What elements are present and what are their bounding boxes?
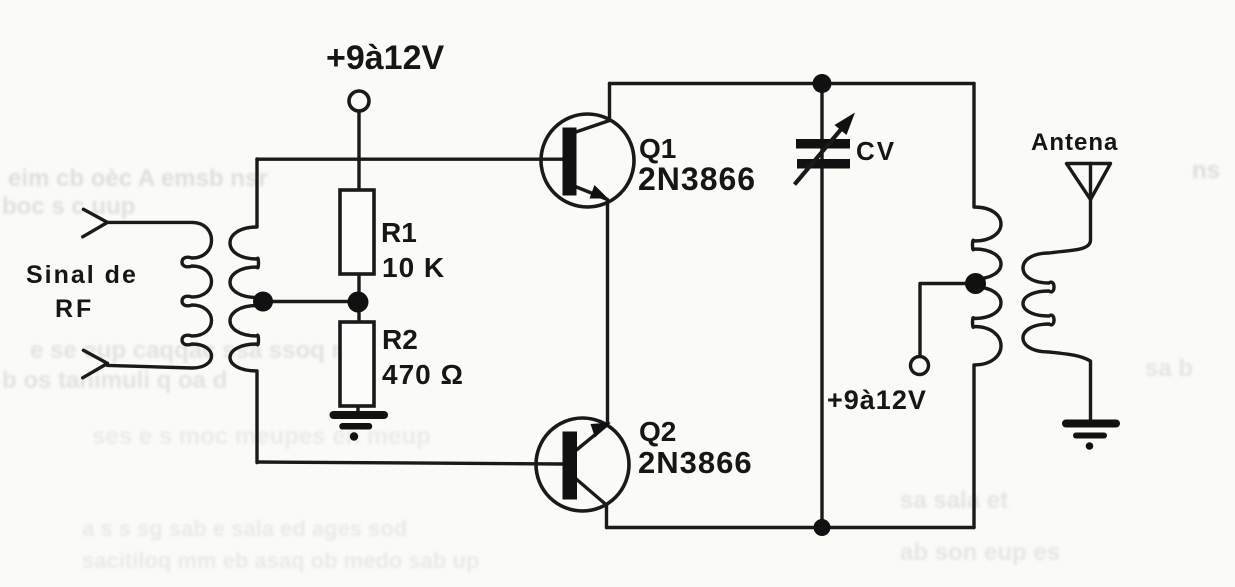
svg-text:Q1: Q1 <box>639 133 676 164</box>
svg-text:10 K: 10 K <box>382 252 445 283</box>
svg-text:2N3866: 2N3866 <box>638 161 756 197</box>
svg-text:boc s c uup: boc s c uup <box>2 193 135 220</box>
svg-text:ses e s moc meupes en meup: ses e s moc meupes en meup <box>92 423 431 450</box>
svg-text:2N3866: 2N3866 <box>638 445 753 480</box>
svg-text:+9à12V: +9à12V <box>827 385 927 415</box>
svg-text:CV: CV <box>856 136 896 166</box>
svg-text:+9à12V: +9à12V <box>326 39 444 77</box>
svg-text:b os tanimuli q oa d: b os tanimuli q oa d <box>2 367 227 394</box>
svg-text:eim cb oèc A emsb nsr: eim cb oèc A emsb nsr <box>8 165 268 192</box>
svg-text:sacitiloq mm eb asaq ob me: sacitiloq mm eb asaq ob medo sab up <box>82 548 479 573</box>
svg-text:ns: ns <box>1192 157 1220 184</box>
svg-text:e se eup caqqac ssa ssoq n: e se eup caqqac ssa ssoq n <box>30 337 346 364</box>
svg-text:470 Ω: 470 Ω <box>382 359 464 390</box>
svg-text:ab son eup es: ab son eup es <box>900 539 1060 566</box>
svg-text:sa sala et: sa sala et <box>900 487 1008 514</box>
svg-text:a s s sg sab e sala ed a: a s s sg sab e sala ed ages sod <box>82 516 407 541</box>
svg-text:R2: R2 <box>382 324 418 355</box>
svg-text:Sinal de: Sinal de <box>26 261 138 289</box>
svg-text:R1: R1 <box>381 217 417 248</box>
svg-text:sa b: sa b <box>1145 355 1193 382</box>
svg-text:Antena: Antena <box>1031 129 1118 156</box>
svg-text:RF: RF <box>55 295 94 323</box>
svg-text:Q2: Q2 <box>639 416 676 447</box>
